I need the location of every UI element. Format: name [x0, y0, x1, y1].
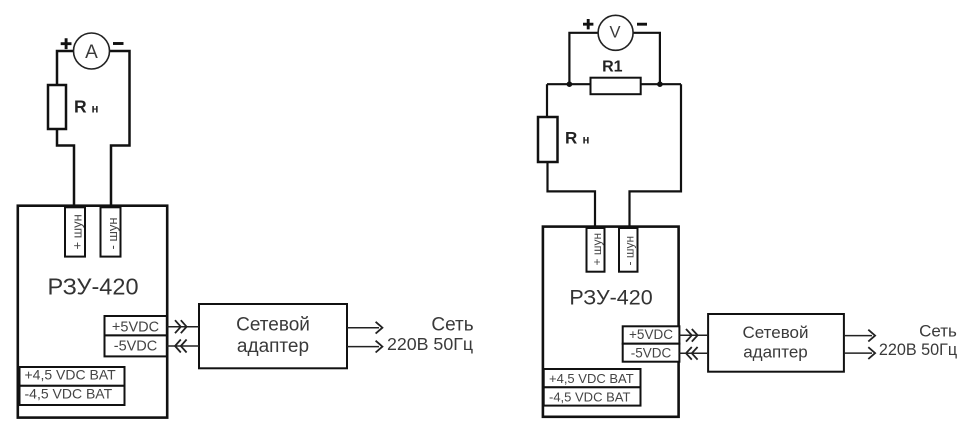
- svg-text:н: н: [583, 135, 590, 147]
- svg-text:РЗУ-420: РЗУ-420: [569, 286, 652, 310]
- svg-text:-4,5 VDC BAT: -4,5 VDC BAT: [25, 386, 113, 402]
- svg-text:РЗУ-420: РЗУ-420: [47, 274, 138, 300]
- svg-text:Сетевой: Сетевой: [236, 315, 310, 336]
- svg-text:Сеть: Сеть: [919, 322, 957, 341]
- svg-text:V: V: [609, 24, 620, 42]
- svg-text:R: R: [74, 97, 87, 117]
- svg-text:-5VDC: -5VDC: [114, 339, 158, 355]
- svg-text:220В 50Гц: 220В 50Гц: [387, 334, 473, 354]
- svg-text:н: н: [92, 104, 99, 116]
- svg-text:Сеть: Сеть: [431, 315, 473, 336]
- svg-text:220В 50Гц: 220В 50Гц: [879, 341, 957, 359]
- svg-text:- шун: - шун: [623, 236, 637, 266]
- svg-text:-5VDC: -5VDC: [631, 346, 672, 361]
- svg-text:+ шун: + шун: [590, 233, 604, 266]
- svg-text:адаптер: адаптер: [237, 336, 309, 357]
- svg-text:+5VDC: +5VDC: [629, 327, 673, 342]
- svg-text:Сетевой: Сетевой: [742, 323, 808, 342]
- svg-text:+ шун: + шун: [70, 214, 85, 249]
- svg-text:R: R: [565, 129, 577, 148]
- svg-text:+5VDC: +5VDC: [112, 320, 159, 336]
- svg-text:адаптер: адаптер: [743, 343, 808, 362]
- svg-text:+4,5 VDC BAT: +4,5 VDC BAT: [25, 367, 117, 383]
- svg-text:R1: R1: [602, 59, 623, 76]
- svg-text:- шун: - шун: [105, 217, 120, 249]
- svg-text:-4,5 VDC BAT: -4,5 VDC BAT: [549, 389, 630, 404]
- svg-text:+4,5 VDC BAT: +4,5 VDC BAT: [549, 371, 634, 386]
- svg-text:A: A: [85, 42, 98, 63]
